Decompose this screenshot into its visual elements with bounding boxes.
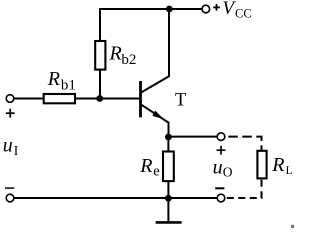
resistor RL bbox=[257, 151, 292, 179]
wire emitter node to Re bbox=[167, 137, 169, 152]
svg-text:R: R bbox=[271, 154, 284, 176]
ground bbox=[156, 198, 182, 222]
terminal +Vcc bbox=[202, 5, 210, 13]
terminal input top bbox=[6, 95, 14, 103]
wire input to Rb1 bbox=[14, 98, 44, 100]
label plus output bbox=[217, 146, 226, 155]
wire emitter to output terminal bbox=[168, 136, 217, 138]
wire Rb1 to base bbox=[75, 98, 139, 100]
wire dashed to RL top bbox=[228, 137, 261, 151]
label minus input bbox=[5, 187, 14, 189]
svg-text:u: u bbox=[3, 134, 13, 156]
node emitter junction bbox=[165, 134, 172, 141]
svg-text:O: O bbox=[223, 165, 233, 180]
wire Re to bottom rail bbox=[167, 181, 169, 198]
node ground junction bbox=[165, 195, 172, 202]
node base junction bbox=[96, 95, 103, 102]
resistor Re bbox=[139, 152, 174, 182]
svg-text:R: R bbox=[139, 155, 152, 177]
terminal output plus bbox=[217, 133, 225, 141]
transistor T bbox=[141, 76, 187, 122]
svg-text:b2: b2 bbox=[121, 52, 136, 68]
wire dashed from RL bottom bbox=[227, 178, 262, 198]
svg-text:I: I bbox=[14, 143, 19, 158]
svg-text:b1: b1 bbox=[61, 78, 76, 94]
wire bottom rail bbox=[14, 197, 217, 199]
terminal input bottom bbox=[6, 194, 14, 202]
wire Rb2 branch upper bbox=[99, 8, 101, 42]
svg-text:R: R bbox=[109, 43, 122, 65]
svg-text:L: L bbox=[286, 165, 293, 177]
wire collector vertical bbox=[168, 9, 170, 77]
label uO bbox=[213, 157, 233, 180]
resistor Rb1 bbox=[44, 68, 76, 103]
svg-text:u: u bbox=[213, 157, 223, 179]
label uI bbox=[3, 134, 19, 158]
label minus output bbox=[215, 187, 224, 189]
wire emitter vertical bbox=[168, 122, 170, 137]
svg-text:T: T bbox=[175, 91, 186, 111]
terminal output minus bbox=[217, 194, 225, 202]
svg-text:R: R bbox=[47, 68, 60, 90]
node collector junction bbox=[166, 6, 173, 13]
label +Vcc bbox=[213, 0, 251, 20]
resistor Rb2 bbox=[95, 41, 136, 70]
svg-text:e: e bbox=[153, 164, 159, 180]
svg-text:CC: CC bbox=[235, 6, 252, 20]
corner smudge bbox=[291, 225, 294, 228]
label plus input bbox=[6, 109, 15, 118]
wire top rail bbox=[99, 8, 202, 10]
wire Rb2 branch lower bbox=[99, 70, 101, 99]
